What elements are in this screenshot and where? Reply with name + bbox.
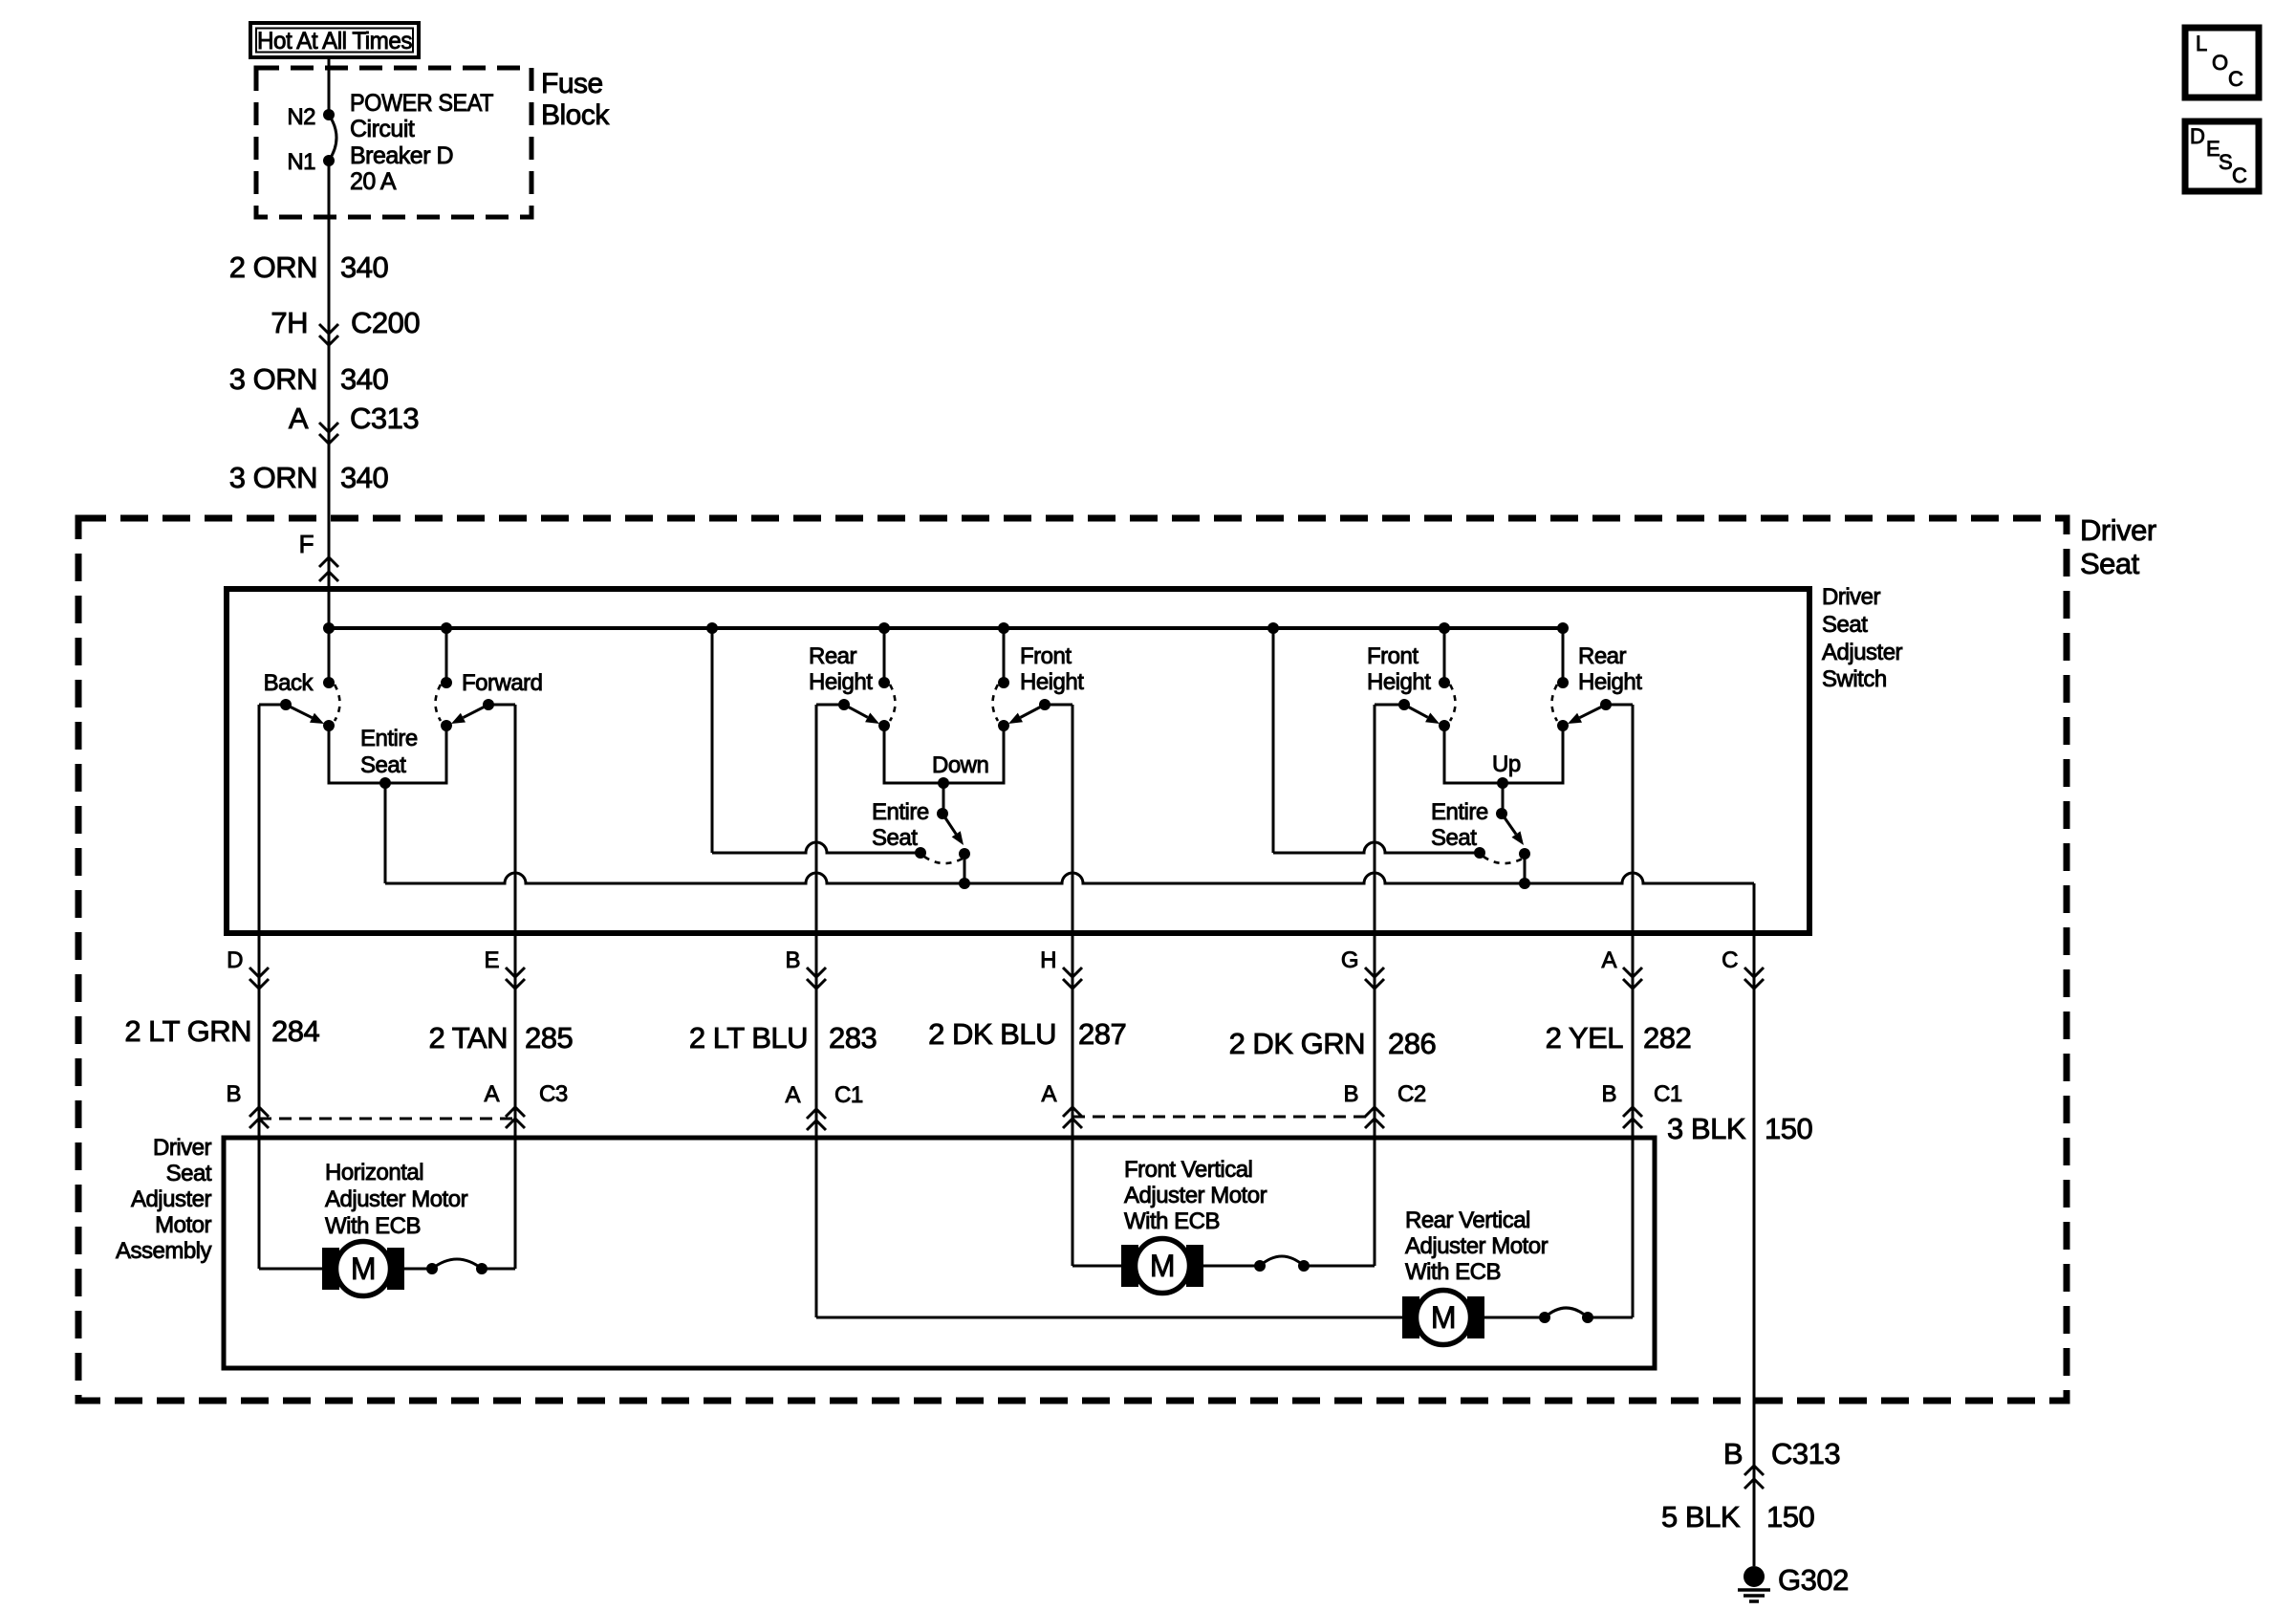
movable contact pivot left xyxy=(1398,699,1410,710)
pivot wire xyxy=(1606,704,1633,707)
motor M2 front vertical adjuster xyxy=(1121,1245,1138,1287)
wire down to transfer pivot xyxy=(942,783,945,814)
movable contact arm arrow xyxy=(1404,705,1428,717)
wire pin C ground return xyxy=(1753,883,1756,1566)
wire pin E to horizontal motor breaker xyxy=(514,705,517,1269)
entire seat common U wire xyxy=(1444,726,1563,783)
pivot wire xyxy=(259,704,286,707)
svg-text:Seat: Seat xyxy=(1822,612,1868,638)
ECB breaker (rear vertical motor) xyxy=(1539,1312,1550,1323)
svg-text:7H: 7H xyxy=(271,306,308,339)
svg-text:Back: Back xyxy=(264,670,314,696)
svg-text:Hot At All Times: Hot At All Times xyxy=(257,28,412,54)
svg-text:340: 340 xyxy=(340,362,388,396)
connector C313 xyxy=(319,423,338,432)
svg-text:2 DK BLU: 2 DK BLU xyxy=(928,1017,1056,1051)
svg-text:150: 150 xyxy=(1765,1112,1812,1145)
svg-text:Seat: Seat xyxy=(166,1161,212,1186)
bus junction x=467 xyxy=(441,622,452,634)
wire feed to down-switch entire-seat contact xyxy=(711,628,714,853)
connector C200 xyxy=(319,324,338,334)
switch throw arc (dashed) xyxy=(335,685,340,721)
svg-text:POWER SEAT: POWER SEAT xyxy=(350,90,493,117)
wire pin B to rear vertical motor xyxy=(815,705,818,1317)
contact lower 925 xyxy=(878,720,890,731)
svg-text:150: 150 xyxy=(1766,1500,1814,1534)
svg-text:Adjuster Motor: Adjuster Motor xyxy=(325,1186,468,1212)
svg-text:285: 285 xyxy=(525,1021,573,1055)
bus junction x=1511 xyxy=(1439,622,1450,634)
wire dropper Back contact xyxy=(328,628,331,683)
svg-text:2 DK GRN: 2 DK GRN xyxy=(1229,1027,1365,1060)
svg-text:Rear Vertical: Rear Vertical xyxy=(1405,1207,1530,1233)
bus junction x=925 xyxy=(878,622,890,634)
ECB breaker (front vertical motor) xyxy=(1254,1260,1266,1272)
contact top 1635 xyxy=(1557,677,1569,688)
common return bus to pin C xyxy=(385,873,1754,883)
svg-text:Driver: Driver xyxy=(1822,584,1881,610)
ground G302 xyxy=(1744,1566,1765,1587)
svg-text:D: D xyxy=(227,947,243,973)
bus junction x=745 xyxy=(706,622,718,634)
pivot wire xyxy=(1045,704,1072,707)
switch feed bus xyxy=(329,626,1563,630)
movable contact arm arrow xyxy=(464,705,489,718)
wire dropper Rear Height contact (down sw) xyxy=(883,628,886,683)
svg-text:Adjuster Motor: Adjuster Motor xyxy=(1405,1233,1549,1259)
svg-text:B: B xyxy=(785,947,800,973)
node entire seat (horizontal) xyxy=(379,777,391,789)
movable contact pivot right xyxy=(1039,699,1051,710)
svg-text:N1: N1 xyxy=(287,149,315,175)
contact top 344 xyxy=(323,677,335,688)
svg-text:Height: Height xyxy=(809,669,873,695)
svg-text:L: L xyxy=(2196,32,2207,55)
svg-text:Up: Up xyxy=(1492,751,1521,777)
circuit breaker D 20A terminals N2 N1 xyxy=(323,109,335,120)
contact top 467 xyxy=(441,677,452,688)
DESC reference box xyxy=(2185,121,2259,191)
wire entire seat to common bus xyxy=(384,783,387,883)
movable contact arm arrow xyxy=(286,705,313,718)
svg-text:Rear: Rear xyxy=(1578,643,1627,669)
svg-text:Height: Height xyxy=(1367,669,1431,695)
svg-text:Switch: Switch xyxy=(1822,666,1887,692)
svg-text:2 YEL: 2 YEL xyxy=(1546,1021,1624,1055)
transfer left contact xyxy=(1474,847,1485,859)
svg-text:M: M xyxy=(1150,1249,1175,1283)
contact lower 1511 xyxy=(1439,720,1450,731)
wire to horizontal motor xyxy=(259,1268,322,1271)
svg-text:Height: Height xyxy=(1578,669,1642,695)
svg-text:Breaker D: Breaker D xyxy=(350,142,453,169)
svg-text:Seat: Seat xyxy=(1431,825,1477,851)
wire breaker to pin A xyxy=(1588,1316,1633,1319)
svg-text:340: 340 xyxy=(340,250,388,284)
node down/up junction xyxy=(1497,777,1508,789)
fuse block dashed box xyxy=(256,68,531,217)
svg-text:C313: C313 xyxy=(1771,1437,1840,1470)
svg-text:C2: C2 xyxy=(1397,1081,1426,1107)
svg-text:B: B xyxy=(1723,1437,1743,1470)
svg-text:A: A xyxy=(484,1081,499,1107)
pivot wire xyxy=(488,704,515,707)
wire transfer contact to common bus xyxy=(964,854,966,883)
svg-text:5 BLK: 5 BLK xyxy=(1661,1500,1741,1534)
svg-text:F: F xyxy=(299,530,314,558)
svg-text:Motor: Motor xyxy=(155,1212,211,1238)
bus junction x=344 xyxy=(323,622,335,634)
ECB breaker (horizontal motor) xyxy=(426,1263,438,1274)
wire pin H to front vertical motor xyxy=(1072,705,1074,1266)
svg-text:Forward: Forward xyxy=(462,670,543,696)
node on common bus xyxy=(1519,878,1530,889)
connector C3 dashed face xyxy=(259,1118,515,1120)
power source box "Hot At All Times" xyxy=(250,23,419,57)
svg-text:N2: N2 xyxy=(287,104,315,130)
svg-text:2 LT GRN: 2 LT GRN xyxy=(124,1014,251,1048)
svg-text:With ECB: With ECB xyxy=(325,1213,421,1239)
wire ORN 340 from breaker to switch xyxy=(328,161,331,628)
svg-text:3 ORN: 3 ORN xyxy=(229,362,317,396)
svg-text:Height: Height xyxy=(1020,669,1084,695)
switch throw arc (dashed) xyxy=(436,685,442,721)
wire dropper Front Height contact (down sw) xyxy=(1003,628,1006,683)
svg-text:Horizontal: Horizontal xyxy=(325,1160,423,1186)
svg-text:Front Vertical: Front Vertical xyxy=(1124,1157,1252,1183)
circuit breaker D element xyxy=(329,115,336,161)
entire seat common U wire xyxy=(329,726,446,783)
svg-text:B: B xyxy=(1343,1081,1358,1107)
svg-text:Entire: Entire xyxy=(360,726,418,751)
svg-text:D: D xyxy=(2190,124,2204,148)
svg-text:C1: C1 xyxy=(834,1082,863,1108)
svg-text:3 ORN: 3 ORN xyxy=(229,461,317,494)
pivot wire xyxy=(816,704,844,707)
svg-text:2 LT BLU: 2 LT BLU xyxy=(689,1021,808,1055)
connector C2 dashed face xyxy=(1072,1116,1375,1119)
switch throw arc (dashed) xyxy=(1552,685,1558,721)
svg-text:20 A: 20 A xyxy=(350,168,397,195)
svg-text:Seat: Seat xyxy=(2080,547,2140,580)
svg-text:Down: Down xyxy=(932,752,988,778)
driver seat component dashed box xyxy=(78,518,2067,1401)
svg-text:Circuit: Circuit xyxy=(350,116,415,142)
svg-text:C1: C1 xyxy=(1654,1081,1682,1107)
svg-text:C: C xyxy=(1722,947,1738,973)
svg-text:H: H xyxy=(1040,947,1056,973)
pivot wire xyxy=(1375,704,1404,707)
svg-text:Entire: Entire xyxy=(1431,799,1488,825)
entire seat common U wire xyxy=(884,726,1004,783)
wire motor to breaker xyxy=(404,1268,432,1271)
svg-text:3 BLK: 3 BLK xyxy=(1667,1112,1746,1145)
svg-text:Rear: Rear xyxy=(809,643,857,669)
movable contact arm arrow xyxy=(844,705,868,717)
svg-text:Entire: Entire xyxy=(872,799,929,825)
wire pin A to rear vertical motor breaker xyxy=(1632,705,1635,1317)
node down/up junction xyxy=(938,777,949,789)
svg-text:O: O xyxy=(2212,51,2228,75)
svg-text:B: B xyxy=(1601,1081,1616,1107)
transfer left contact xyxy=(915,847,926,859)
movable contact pivot left xyxy=(280,699,292,710)
contact top 1511 xyxy=(1439,677,1450,688)
svg-text:Seat: Seat xyxy=(360,752,406,778)
svg-text:A: A xyxy=(1601,947,1616,973)
bus junction x=1332 xyxy=(1267,622,1279,634)
wire pin G to front vertical motor breaker xyxy=(1374,705,1376,1266)
wire pin B to rear vertical motor xyxy=(816,1316,1402,1319)
transfer pivot xyxy=(937,808,948,819)
svg-text:Front: Front xyxy=(1020,643,1072,669)
movable contact pivot right xyxy=(1600,699,1612,710)
svg-text:282: 282 xyxy=(1643,1021,1691,1055)
transfer throw arc (dashed) xyxy=(1484,857,1523,863)
movable contact arm arrow xyxy=(1020,705,1045,718)
node on common bus xyxy=(959,878,970,889)
svg-text:M: M xyxy=(351,1251,376,1286)
wire dropper Rear Height contact (up sw) xyxy=(1562,628,1565,683)
wire pin D to horizontal motor xyxy=(258,705,261,1269)
wire feed to up-switch entire-seat contact xyxy=(1272,628,1275,853)
svg-text:Adjuster: Adjuster xyxy=(1822,640,1903,665)
driver seat adjuster switch box xyxy=(227,589,1809,933)
svg-text:2 TAN: 2 TAN xyxy=(429,1021,509,1055)
svg-text:283: 283 xyxy=(829,1021,877,1055)
wire breaker to pin E xyxy=(482,1268,515,1271)
contact lower 1635 xyxy=(1557,720,1569,731)
svg-text:287: 287 xyxy=(1078,1017,1126,1051)
movable contact pivot right xyxy=(483,699,494,710)
svg-text:B: B xyxy=(226,1081,241,1107)
svg-text:Driver: Driver xyxy=(2080,513,2156,547)
wire: battery feed into fuse block xyxy=(328,57,331,115)
svg-text:Front: Front xyxy=(1367,643,1419,669)
movable contact arm arrow xyxy=(1580,705,1607,718)
wire to front vertical motor xyxy=(1072,1265,1121,1268)
svg-text:G: G xyxy=(1341,947,1358,973)
wire motor to breaker xyxy=(1203,1265,1260,1268)
connector pin F xyxy=(319,557,338,567)
wire breaker to pin G xyxy=(1304,1265,1375,1268)
svg-text:284: 284 xyxy=(271,1014,319,1048)
transfer arm arrow xyxy=(942,814,956,834)
svg-text:C200: C200 xyxy=(351,306,420,339)
contact top 925 xyxy=(878,677,890,688)
svg-text:C313: C313 xyxy=(350,402,419,435)
transfer right contact xyxy=(959,848,970,859)
wire dropper Front Height contact (up sw) xyxy=(1443,628,1446,683)
svg-text:Block: Block xyxy=(541,99,610,131)
contact lower 344 xyxy=(323,720,335,731)
motor M1 horizontal adjuster xyxy=(322,1248,339,1290)
svg-text:A: A xyxy=(1041,1081,1056,1107)
svg-text:Adjuster Motor: Adjuster Motor xyxy=(1124,1183,1267,1208)
driver seat adjuster motor assembly box xyxy=(224,1138,1655,1368)
svg-text:With ECB: With ECB xyxy=(1124,1208,1220,1234)
bus junction x=1050 xyxy=(998,622,1009,634)
wire motor to breaker xyxy=(1484,1316,1545,1319)
transfer pivot xyxy=(1496,808,1507,819)
svg-text:C: C xyxy=(2232,163,2247,187)
svg-text:Seat: Seat xyxy=(872,825,918,851)
wire down to transfer pivot xyxy=(1502,783,1505,814)
svg-text:G302: G302 xyxy=(1778,1563,1849,1597)
svg-text:2 ORN: 2 ORN xyxy=(229,250,317,284)
wire transfer contact to common bus xyxy=(1524,854,1527,883)
svg-text:A: A xyxy=(785,1082,800,1108)
wire dropper Forward contact xyxy=(445,628,448,683)
svg-text:S: S xyxy=(2219,150,2232,174)
switch throw arc (dashed) xyxy=(1450,685,1456,721)
svg-text:Fuse: Fuse xyxy=(541,68,603,99)
bus junction x=1635 xyxy=(1557,622,1569,634)
LOC reference box xyxy=(2185,28,2259,98)
svg-text:286: 286 xyxy=(1388,1027,1436,1060)
transfer throw arc (dashed) xyxy=(924,857,963,863)
svg-text:C: C xyxy=(2228,67,2243,91)
movable contact pivot left xyxy=(838,699,850,710)
motor M3 rear vertical adjuster xyxy=(1402,1296,1419,1338)
svg-text:A: A xyxy=(289,402,309,435)
svg-text:E: E xyxy=(484,947,499,973)
svg-text:C3: C3 xyxy=(539,1081,568,1107)
svg-text:Assembly: Assembly xyxy=(116,1238,212,1264)
svg-text:Driver: Driver xyxy=(153,1135,212,1161)
contact top 1050 xyxy=(998,677,1009,688)
svg-text:M: M xyxy=(1431,1300,1456,1335)
transfer arm arrow xyxy=(1502,814,1516,835)
switch throw arc (dashed) xyxy=(890,685,896,721)
svg-text:340: 340 xyxy=(340,461,388,494)
contact lower 1050 xyxy=(998,720,1009,731)
svg-text:Adjuster: Adjuster xyxy=(131,1186,212,1212)
transfer right contact xyxy=(1519,848,1530,859)
svg-text:With ECB: With ECB xyxy=(1405,1259,1501,1285)
switch throw arc (dashed) xyxy=(993,685,999,721)
contact lower 467 xyxy=(441,720,452,731)
